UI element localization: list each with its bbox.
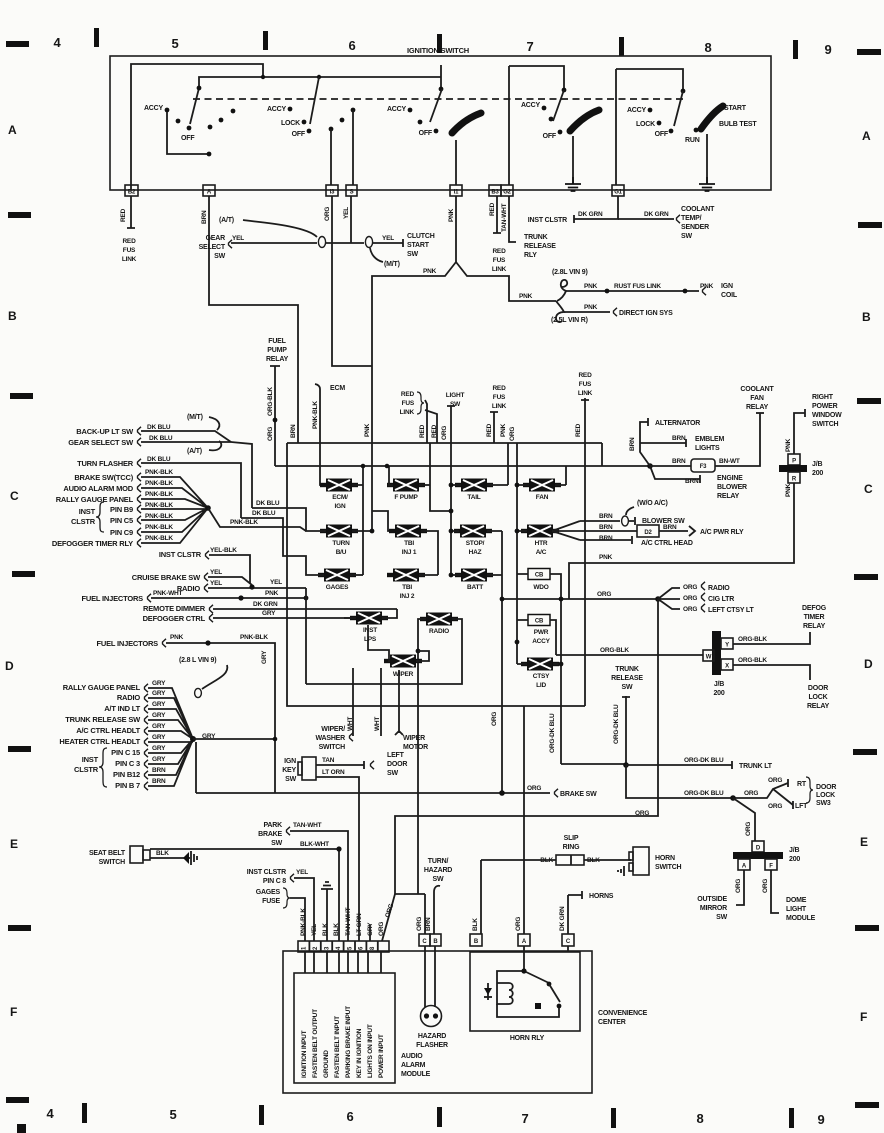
svg-text:BRN: BRN <box>599 535 613 542</box>
svg-text:SWITCH: SWITCH <box>812 421 839 428</box>
svg-text:REMOTE DIMMER: REMOTE DIMMER <box>143 604 206 613</box>
horn relay pins B A C <box>470 934 574 946</box>
wire: G1 DK GRN to inst clstr and coolant temp <box>528 196 715 240</box>
svg-text:FAN: FAN <box>536 494 549 501</box>
coolant fan relay <box>740 386 774 413</box>
svg-text:BRN: BRN <box>599 513 613 520</box>
svg-text:RADIO: RADIO <box>117 693 141 702</box>
svg-text:SW: SW <box>716 914 727 921</box>
svg-text:FUS: FUS <box>493 394 506 401</box>
defog timer relay wire <box>733 605 827 644</box>
svg-text:GROUND: GROUND <box>323 1050 330 1078</box>
svg-text:PNK-BLK: PNK-BLK <box>230 519 258 526</box>
svg-text:RADIO: RADIO <box>429 628 449 635</box>
svg-text:GAGES: GAGES <box>256 889 281 896</box>
svg-text:SEAT BELT: SEAT BELT <box>89 850 126 857</box>
svg-text:YEL: YEL <box>210 580 222 587</box>
svg-text:LOCK: LOCK <box>808 694 827 701</box>
svg-text:SW: SW <box>214 253 225 260</box>
svg-text:RIGHT: RIGHT <box>812 394 834 401</box>
svg-text:IGNITION SWITCH: IGNITION SWITCH <box>407 46 469 55</box>
terminal G2 <box>501 185 513 196</box>
svg-text:GAGES: GAGES <box>326 584 349 591</box>
svg-text:ORG: ORG <box>527 785 541 792</box>
svg-text:COOLANT: COOLANT <box>740 386 774 393</box>
svg-text:5: 5 <box>169 1107 176 1122</box>
svg-text:PIN C 8: PIN C 8 <box>263 878 286 885</box>
svg-text:F PUMP: F PUMP <box>394 494 418 501</box>
svg-text:(2.8L VIN 9): (2.8L VIN 9) <box>552 269 588 276</box>
svg-text:MIRROR: MIRROR <box>700 905 727 912</box>
red fus link stub right <box>486 385 507 443</box>
svg-text:WASHER: WASHER <box>315 735 345 742</box>
svg-text:LOCK: LOCK <box>281 120 300 127</box>
svg-text:CLSTR: CLSTR <box>71 517 96 526</box>
svg-text:YEL: YEL <box>311 924 318 936</box>
svg-text:IGN: IGN <box>335 503 346 510</box>
svg-text:TAN: TAN <box>322 757 335 764</box>
svg-text:FUS: FUS <box>579 381 592 388</box>
svg-text:DEFOG: DEFOG <box>802 605 827 612</box>
svg-text:C: C <box>10 489 19 503</box>
fuse RADIO <box>306 588 462 894</box>
wire: B3 RED fuse link <box>489 196 507 273</box>
svg-text:6: 6 <box>348 38 355 53</box>
svg-text:HTR: HTR <box>535 540 548 547</box>
outside mirror sw wire <box>697 870 744 921</box>
svg-text:COIL: COIL <box>721 292 738 299</box>
svg-text:PNK: PNK <box>364 423 371 437</box>
svg-text:FUS: FUS <box>402 400 415 407</box>
svg-text:SELECT: SELECT <box>199 244 226 251</box>
svg-text:HAZARD: HAZARD <box>418 1033 446 1040</box>
svg-text:SW: SW <box>285 776 296 783</box>
svg-text:GRY: GRY <box>152 690 166 697</box>
alternator / emblem lights / F3 / engine blower cluster <box>629 413 760 500</box>
svg-text:TEMP/: TEMP/ <box>681 215 702 222</box>
svg-text:ORG: ORG <box>683 584 697 591</box>
svg-text:GRY: GRY <box>152 701 166 708</box>
svg-text:W: W <box>706 655 712 661</box>
svg-text:(W/O A/C): (W/O A/C) <box>637 500 668 507</box>
svg-text:FUSE: FUSE <box>262 898 280 905</box>
svg-text:7: 7 <box>521 1111 528 1126</box>
svg-text:200: 200 <box>789 856 800 863</box>
svg-text:LT GRN: LT GRN <box>356 913 363 936</box>
svg-text:DOOR: DOOR <box>808 685 828 692</box>
blower sw row <box>580 500 685 526</box>
svg-text:FUS: FUS <box>123 247 136 254</box>
svg-text:TAN-WHT: TAN-WHT <box>293 822 322 829</box>
fuse TBI INJ 2 <box>387 569 438 601</box>
svg-text:A: A <box>8 123 17 137</box>
svg-text:E: E <box>10 837 18 851</box>
svg-text:CLSTR: CLSTR <box>74 765 99 774</box>
light sw stub <box>441 392 464 575</box>
audio alarm pin wire labels <box>300 907 385 941</box>
svg-text:AUDIO ALARM MOD: AUDIO ALARM MOD <box>63 484 133 493</box>
svg-text:BLOWER: BLOWER <box>717 484 747 491</box>
gages fuse stub to pin 1 <box>256 888 305 941</box>
svg-text:PIN C5: PIN C5 <box>110 516 133 525</box>
svg-text:J/B: J/B <box>714 681 724 688</box>
svg-text:LOCK: LOCK <box>636 121 655 128</box>
trunk lt row <box>626 757 773 770</box>
svg-text:BRN: BRN <box>152 778 166 785</box>
svg-text:7: 7 <box>526 39 533 54</box>
svg-text:OFF: OFF <box>655 131 669 138</box>
wire: G1 internal <box>615 69 617 185</box>
right power window switch <box>812 394 842 428</box>
fuse grid buses <box>275 443 650 706</box>
svg-text:(M/T): (M/T) <box>384 261 400 268</box>
svg-text:BATT: BATT <box>467 584 483 591</box>
svg-text:5: 5 <box>171 36 178 51</box>
ground: ignition switch group 5 <box>699 177 715 191</box>
svg-text:PNK-BLK: PNK-BLK <box>145 524 173 531</box>
svg-text:X: X <box>725 664 729 670</box>
svg-text:INST: INST <box>79 507 96 516</box>
fuse F PUMP <box>372 464 430 531</box>
svg-text:RADIO: RADIO <box>708 585 730 592</box>
svg-text:IGN: IGN <box>284 758 296 765</box>
svg-text:E: E <box>860 835 868 849</box>
svg-text:IGN: IGN <box>721 283 733 290</box>
fuse GAGES <box>241 510 363 591</box>
svg-text:POWER: POWER <box>812 403 838 410</box>
svg-text:RELEASE: RELEASE <box>611 675 643 682</box>
horns stub <box>559 891 614 934</box>
svg-text:S: S <box>350 190 354 196</box>
seat belt switch <box>89 846 197 866</box>
svg-text:FLASHER: FLASHER <box>416 1042 448 1049</box>
svg-text:OFF: OFF <box>292 131 306 138</box>
svg-text:HORNS: HORNS <box>589 893 614 900</box>
svg-text:P: P <box>792 459 796 465</box>
wire: B2 RED fuse link lead <box>120 196 137 263</box>
slip ring / horn switch <box>481 835 682 934</box>
svg-text:G1: G1 <box>614 190 622 196</box>
svg-text:DOOR: DOOR <box>387 761 407 768</box>
svg-text:PNK: PNK <box>785 483 792 497</box>
fuse BATT <box>449 569 502 592</box>
svg-text:F: F <box>10 1005 17 1019</box>
fuel pump relay stub <box>266 338 289 466</box>
svg-text:BRN: BRN <box>672 458 686 465</box>
svg-text:LINK: LINK <box>400 409 415 416</box>
svg-text:RALLY GAUGE PANEL: RALLY GAUGE PANEL <box>56 495 134 504</box>
svg-text:SWITCH: SWITCH <box>319 744 346 751</box>
svg-text:INST CLSTR: INST CLSTR <box>528 217 567 224</box>
svg-text:RELAY: RELAY <box>717 493 740 500</box>
svg-text:INST CLSTR: INST CLSTR <box>247 869 286 876</box>
hazard flasher connector C B <box>419 934 441 946</box>
svg-text:ORG-BLK: ORG-BLK <box>738 657 767 664</box>
svg-text:ALTERNATOR: ALTERNATOR <box>655 420 700 427</box>
svg-text:BRN: BRN <box>201 210 208 224</box>
svg-text:PUMP: PUMP <box>267 347 287 354</box>
svg-text:LINK: LINK <box>492 403 507 410</box>
wire: I3 terminal ORG <box>324 196 372 366</box>
svg-text:ENGINE: ENGINE <box>717 475 743 482</box>
org wire to hazard / conv center <box>382 599 658 941</box>
svg-text:CTSY: CTSY <box>533 673 550 680</box>
svg-text:A/C: A/C <box>536 549 547 556</box>
fuse TBI INJ 1 <box>389 443 453 575</box>
border grid reference: left letters and ticks <box>5 41 35 1103</box>
wire: I1 terminal PNK with split <box>364 196 556 531</box>
svg-text:LIGHTS ON INPUT: LIGHTS ON INPUT <box>367 1024 374 1078</box>
wire to J/B 200 D <box>733 798 755 841</box>
svg-text:PNK: PNK <box>519 293 533 300</box>
svg-text:TBI: TBI <box>402 584 412 591</box>
svg-text:DOME: DOME <box>786 897 807 904</box>
svg-text:8: 8 <box>696 1111 703 1126</box>
door lock relay wire <box>733 657 830 710</box>
svg-text:BLK-WHT: BLK-WHT <box>300 841 329 848</box>
svg-text:RELAY: RELAY <box>266 356 289 363</box>
svg-text:ACCY: ACCY <box>627 107 647 114</box>
svg-text:RED: RED <box>419 424 426 438</box>
svg-text:YEL: YEL <box>232 235 244 242</box>
svg-text:YEL: YEL <box>210 569 222 576</box>
svg-text:LPS: LPS <box>364 636 377 643</box>
svg-text:INST: INST <box>363 627 377 634</box>
svg-text:RING: RING <box>563 844 580 851</box>
svg-text:ORG: ORG <box>683 606 697 613</box>
svg-text:A/T IND LT: A/T IND LT <box>104 704 140 713</box>
svg-text:WIPER: WIPER <box>393 671 414 678</box>
svg-text:PNK-BLK: PNK-BLK <box>145 469 173 476</box>
svg-text:PIN B9: PIN B9 <box>110 505 133 514</box>
svg-text:GRY: GRY <box>152 723 166 730</box>
svg-text:PNK-BLK: PNK-BLK <box>312 401 319 429</box>
svg-text:WINDOW: WINDOW <box>812 412 842 419</box>
svg-text:PIN C 3: PIN C 3 <box>115 759 140 768</box>
svg-text:PNK: PNK <box>584 283 598 290</box>
svg-text:CRUISE BRAKE SW: CRUISE BRAKE SW <box>132 573 201 582</box>
switch group 3 ACCY/OFF with contact arc <box>387 89 481 137</box>
svg-text:PIN B12: PIN B12 <box>113 770 140 779</box>
svg-text:SW: SW <box>433 876 444 883</box>
svg-text:RED: RED <box>578 372 592 379</box>
svg-text:D: D <box>5 659 14 673</box>
svg-text:ACCY: ACCY <box>387 106 407 113</box>
svg-text:RT: RT <box>797 781 807 788</box>
svg-text:DK GRN: DK GRN <box>578 211 603 218</box>
svg-text:INJ 1: INJ 1 <box>402 549 417 556</box>
svg-text:FUEL: FUEL <box>268 338 286 345</box>
svg-text:(2.8 L VIN 9): (2.8 L VIN 9) <box>179 657 216 664</box>
svg-text:BULB TEST: BULB TEST <box>719 121 757 128</box>
svg-text:D2: D2 <box>644 530 652 536</box>
svg-text:PNK: PNK <box>423 268 437 275</box>
svg-text:FUEL INJECTORS: FUEL INJECTORS <box>81 594 143 603</box>
svg-text:200: 200 <box>812 470 823 477</box>
svg-text:CONVENIENCE: CONVENIENCE <box>598 1010 648 1017</box>
svg-text:DEFOGGER CTRL: DEFOGGER CTRL <box>143 614 206 623</box>
svg-text:LID: LID <box>536 682 546 689</box>
svg-text:D: D <box>864 657 873 671</box>
svg-text:START: START <box>407 242 430 249</box>
svg-text:DK BLU: DK BLU <box>256 500 280 507</box>
svg-text:B: B <box>862 310 871 324</box>
svg-text:SLIP: SLIP <box>564 835 579 842</box>
svg-text:WIPER: WIPER <box>403 735 425 742</box>
svg-text:F: F <box>769 864 773 870</box>
fuse FAN <box>491 427 566 793</box>
svg-text:PNK-BLK: PNK-BLK <box>145 502 173 509</box>
svg-text:RED: RED <box>492 385 506 392</box>
terminal S <box>346 185 357 196</box>
svg-text:YEL: YEL <box>382 235 394 242</box>
svg-text:PNK: PNK <box>265 590 279 597</box>
svg-text:TRUNK: TRUNK <box>615 666 639 673</box>
svg-text:YEL: YEL <box>296 869 308 876</box>
GRY fan wires <box>148 688 277 793</box>
org fan to radio/cig ltr/ctsy <box>500 582 755 614</box>
svg-text:FASTEN BELT INPUT: FASTEN BELT INPUT <box>334 1016 341 1078</box>
fuse TAIL <box>449 443 508 501</box>
svg-text:RED: RED <box>486 423 493 437</box>
svg-text:ORG-BLK: ORG-BLK <box>600 647 629 654</box>
svg-text:MOTOR: MOTOR <box>403 744 428 751</box>
svg-text:FASTEN BELT OUTPUT: FASTEN BELT OUTPUT <box>312 1009 319 1078</box>
defogger ctrl GRY row <box>143 610 351 623</box>
svg-text:ORG: ORG <box>515 917 522 931</box>
svg-text:GRY: GRY <box>152 680 166 687</box>
switch group 1 ACCY/OFF <box>144 86 235 157</box>
wiper/washer switch + wiper motor labels <box>315 726 428 751</box>
svg-text:ORG: ORG <box>416 917 423 931</box>
svg-text:KEY IN IGNITION: KEY IN IGNITION <box>356 1028 363 1078</box>
svg-text:TRUNK RELEASE SW: TRUNK RELEASE SW <box>65 715 141 724</box>
svg-text:FUS: FUS <box>493 257 506 264</box>
cruise brake sw YEL row <box>132 569 252 585</box>
svg-text:BLK: BLK <box>156 850 169 857</box>
svg-text:GRY: GRY <box>152 756 166 763</box>
svg-text:BRN: BRN <box>152 767 166 774</box>
wire: A terminal BRN <box>201 196 298 443</box>
svg-text:PNK: PNK <box>584 304 598 311</box>
direct ignition row <box>551 304 673 324</box>
svg-text:POWER INPUT: POWER INPUT <box>378 1034 385 1078</box>
svg-text:HAZARD: HAZARD <box>424 867 452 874</box>
svg-text:DK BLU: DK BLU <box>147 456 171 463</box>
svg-text:TAIL: TAIL <box>467 494 480 501</box>
svg-text:LINK: LINK <box>122 256 137 263</box>
svg-text:YEL: YEL <box>270 579 282 586</box>
svg-text:RLY: RLY <box>524 252 537 259</box>
terminal A <box>203 185 215 196</box>
svg-text:PNK-BLK: PNK-BLK <box>300 908 307 936</box>
svg-text:BRN: BRN <box>425 917 432 931</box>
svg-text:(A/T): (A/T) <box>187 448 202 455</box>
terminal I3 <box>326 185 338 196</box>
svg-text:DIRECT IGN SYS: DIRECT IGN SYS <box>619 310 673 317</box>
svg-text:DK GRN: DK GRN <box>253 601 278 608</box>
svg-text:GRY: GRY <box>261 650 268 664</box>
red fus link vertical right <box>575 372 593 706</box>
svg-text:CENTER: CENTER <box>598 1019 626 1026</box>
svg-text:BRN: BRN <box>599 524 613 531</box>
svg-text:ORG: ORG <box>683 595 697 602</box>
svg-text:SW: SW <box>407 251 418 258</box>
svg-text:SW: SW <box>681 233 692 240</box>
svg-text:BRN: BRN <box>290 424 297 438</box>
svg-text:LIGHT: LIGHT <box>786 906 807 913</box>
remote dimmer DK GRN row <box>143 601 397 613</box>
J/B 200 W X Y connector <box>556 631 733 697</box>
svg-text:200: 200 <box>713 690 724 697</box>
svg-text:B3: B3 <box>491 190 499 196</box>
svg-text:RUN: RUN <box>685 137 700 144</box>
svg-text:B/U: B/U <box>336 549 347 556</box>
breaker WDO <box>517 569 561 765</box>
svg-text:ORG: ORG <box>635 810 649 817</box>
svg-text:9: 9 <box>824 42 831 57</box>
svg-text:ACCY: ACCY <box>532 638 550 645</box>
svg-text:YEL: YEL <box>343 207 350 219</box>
svg-text:ORG-DK BLU: ORG-DK BLU <box>684 757 724 764</box>
svg-text:INST CLSTR: INST CLSTR <box>159 550 202 559</box>
wire: G2 TAN-WHT trunk release relay <box>501 196 556 259</box>
svg-text:J/B: J/B <box>789 847 799 854</box>
svg-text:(A/T): (A/T) <box>219 217 234 224</box>
svg-text:DK BLU: DK BLU <box>252 510 276 517</box>
terminal G1 <box>612 185 624 196</box>
fuel injectors PNK-WHT row <box>81 590 308 603</box>
svg-text:BRN: BRN <box>672 435 686 442</box>
audio alarm pin row 1-8 <box>298 941 389 952</box>
svg-text:DEFOGGER TIMER RLY: DEFOGGER TIMER RLY <box>52 539 133 548</box>
svg-text:PIN C9: PIN C9 <box>110 528 133 537</box>
svg-text:GEAR: GEAR <box>206 235 226 242</box>
left stack 1: back-up / gear select DK BLU <box>68 414 252 508</box>
horn relay internals <box>484 946 568 1017</box>
svg-text:INJ 2: INJ 2 <box>400 593 415 600</box>
svg-text:A/C PWR RLY: A/C PWR RLY <box>700 529 744 536</box>
svg-text:HORN RLY: HORN RLY <box>510 1035 545 1042</box>
svg-text:MODULE: MODULE <box>401 1071 431 1078</box>
svg-text:SW: SW <box>622 684 633 691</box>
svg-text:GRY: GRY <box>262 610 276 617</box>
left door sw <box>371 752 408 777</box>
svg-text:6: 6 <box>346 1109 353 1124</box>
svg-text:PWR: PWR <box>534 629 549 636</box>
svg-text:TURN FLASHER: TURN FLASHER <box>77 459 134 468</box>
svg-text:ORG: ORG <box>597 591 611 598</box>
svg-text:BRAKE SW: BRAKE SW <box>560 791 597 798</box>
svg-text:GEAR SELECT SW: GEAR SELECT SW <box>68 438 134 447</box>
terminal I1 <box>450 185 462 196</box>
fuse CTSY LID <box>517 658 626 765</box>
svg-text:PNK-BLK: PNK-BLK <box>145 535 173 542</box>
svg-text:IGNITION INPUT: IGNITION INPUT <box>301 1030 308 1078</box>
hazard flasher <box>416 946 448 1049</box>
radio YEL row <box>177 579 306 593</box>
svg-text:TRUNK: TRUNK <box>524 234 548 241</box>
svg-text:PNK: PNK <box>448 208 455 222</box>
svg-text:F3: F3 <box>700 464 707 470</box>
svg-text:COOLANT: COOLANT <box>681 206 715 213</box>
svg-text:WDO: WDO <box>533 584 548 591</box>
svg-text:LIGHT: LIGHT <box>446 392 465 399</box>
svg-text:B: B <box>8 309 17 323</box>
svg-text:RELEASE: RELEASE <box>524 243 556 250</box>
svg-text:ORG: ORG <box>768 777 782 784</box>
svg-text:BLK: BLK <box>472 918 479 931</box>
